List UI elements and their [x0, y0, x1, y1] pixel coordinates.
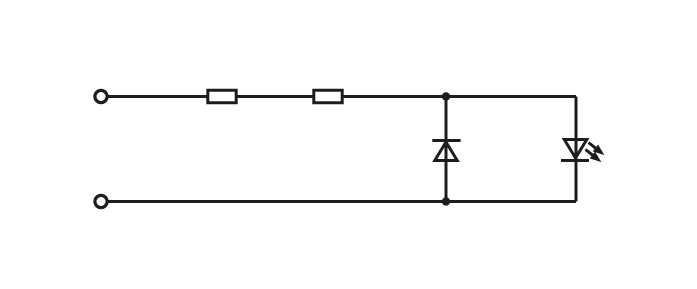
wire right vertical	[575, 97, 578, 202]
LED V1 cathode bar	[561, 159, 589, 162]
node junction top	[442, 92, 450, 100]
terminal top-left	[95, 90, 107, 102]
node junction bottom	[442, 197, 450, 205]
LED V1 light arrow upper	[586, 139, 607, 158]
LED V1 light arrow lower	[583, 146, 604, 165]
wire middle vertical	[445, 97, 448, 202]
resistor R2	[314, 90, 342, 103]
resistor R1	[208, 90, 236, 103]
wire top horizontal	[108, 95, 576, 98]
wire bottom horizontal	[108, 200, 576, 203]
diode D1 triangle	[435, 142, 457, 161]
terminal bottom-left	[95, 195, 107, 207]
LED V1 triangle	[564, 140, 587, 159]
diode D1 cathode bar	[432, 139, 460, 142]
